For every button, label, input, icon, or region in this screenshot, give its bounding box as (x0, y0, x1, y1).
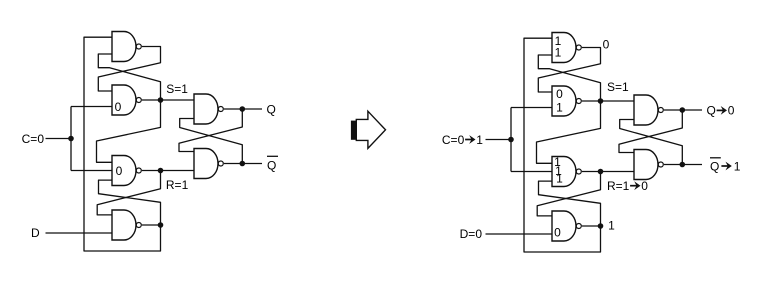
svg-text:R=1: R=1 (607, 179, 630, 193)
svg-text:1: 1 (555, 45, 562, 59)
svg-text:C=0: C=0 (442, 133, 465, 147)
svg-text:0: 0 (728, 104, 735, 118)
svg-text:0: 0 (603, 38, 610, 52)
svg-text:R=1: R=1 (166, 178, 189, 192)
svg-text:C=0: C=0 (22, 132, 45, 146)
svg-text:1: 1 (556, 172, 563, 186)
svg-text:1: 1 (556, 101, 563, 115)
svg-text:S=1: S=1 (166, 82, 188, 96)
svg-text:0: 0 (116, 164, 123, 178)
svg-text:S=1: S=1 (607, 80, 629, 94)
svg-text:1: 1 (608, 219, 615, 233)
svg-text:0: 0 (556, 87, 563, 101)
svg-text:0: 0 (641, 179, 648, 193)
svg-text:Q: Q (267, 103, 276, 117)
svg-text:0: 0 (554, 226, 561, 240)
svg-text:Q: Q (710, 159, 719, 173)
svg-text:D=0: D=0 (460, 227, 483, 241)
svg-text:D: D (31, 226, 40, 240)
svg-text:1: 1 (734, 159, 741, 173)
svg-text:1: 1 (476, 133, 483, 147)
svg-text:Q: Q (707, 104, 716, 118)
svg-text:Q: Q (267, 158, 276, 172)
svg-text:0: 0 (115, 100, 122, 114)
